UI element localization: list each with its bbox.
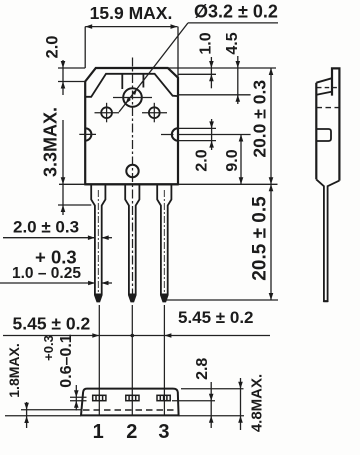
small marked circle right — [149, 107, 160, 118]
svg-text:5.45 ± 0.2: 5.45 ± 0.2 — [13, 314, 91, 334]
svg-text:1.0: 1.0 — [198, 32, 215, 54]
svg-text:2.0: 2.0 — [43, 36, 61, 59]
svg-text:3: 3 — [158, 421, 169, 443]
svg-text:Ø3.2 ± 0.2: Ø3.2 ± 0.2 — [194, 2, 278, 22]
svg-text:1: 1 — [93, 421, 104, 443]
lead section 2 — [126, 395, 139, 400]
svg-text:9.0: 9.0 — [224, 149, 241, 171]
5.45 dimension line — [3, 335, 270, 337]
svg-text:2.8: 2.8 — [194, 358, 211, 380]
side view tab — [332, 68, 339, 180]
svg-text:2.0: 2.0 — [193, 149, 210, 171]
side view dashed hidden line lower — [317, 107, 340, 109]
svg-text:0.6–0.1: 0.6–0.1 — [58, 334, 75, 387]
lead 2 outline — [125, 184, 139, 301]
svg-text:15.9 MAX.: 15.9 MAX. — [90, 3, 173, 23]
lead 3 center line — [163, 190, 165, 298]
svg-text:20.0 ± 0.3: 20.0 ± 0.3 — [250, 80, 270, 158]
svg-text:1.0 – 0.25: 1.0 – 0.25 — [12, 265, 81, 282]
svg-text:20.5 ± 0.5: 20.5 ± 0.5 — [250, 196, 271, 281]
small marked circle left — [101, 107, 112, 118]
side view second slant — [317, 92, 332, 95]
lead 3 outline — [157, 184, 171, 301]
right side ear notch — [172, 128, 178, 140]
lead 1 outline — [91, 184, 105, 301]
svg-text:3.3MAX.: 3.3MAX. — [40, 107, 60, 177]
svg-text:+0.3: +0.3 — [41, 335, 56, 361]
bottom view hidden lead plane dashed — [83, 409, 178, 411]
lead 1 center line — [97, 190, 99, 298]
side view left edge — [315, 83, 317, 180]
lead extension line 1 — [98, 305, 100, 415]
cap notch right vertical — [142, 74, 144, 88]
svg-text:4.5: 4.5 — [224, 32, 241, 54]
svg-text:5.45 ± 0.2: 5.45 ± 0.2 — [178, 308, 254, 327]
bottom view body — [81, 389, 179, 416]
mounting hole — [123, 88, 142, 107]
lead section 3 — [157, 395, 170, 400]
mounting hole crosshair — [113, 97, 152, 99]
lead extension line 2 — [131, 305, 133, 415]
side view body top slant — [316, 78, 332, 83]
lead section 1 — [93, 395, 106, 400]
svg-text:4.8MAX.: 4.8MAX. — [249, 374, 266, 432]
left side ear notch — [85, 128, 91, 140]
svg-text:2: 2 — [126, 421, 137, 443]
side view bottom taper — [316, 179, 324, 300]
bottom face extension right — [179, 415, 244, 417]
lead extension line 3 — [163, 305, 165, 415]
front view body outline — [85, 68, 178, 184]
bottom small circle — [126, 165, 138, 177]
body bottom edge — [85, 183, 178, 185]
cap notch left vertical — [121, 74, 123, 89]
lead plane extension left — [21, 409, 83, 411]
vertical center line — [132, 58, 134, 303]
svg-text:2.0 ± 0.3: 2.0 ± 0.3 — [13, 218, 79, 237]
side view ear recess — [316, 129, 331, 141]
side view dashed hidden line upper — [317, 87, 339, 89]
front view cap inner line — [85, 74, 178, 97]
side view lead tip — [324, 300, 328, 302]
bottom face extension left — [5, 415, 81, 417]
svg-text:1.8MAX.: 1.8MAX. — [6, 343, 22, 397]
